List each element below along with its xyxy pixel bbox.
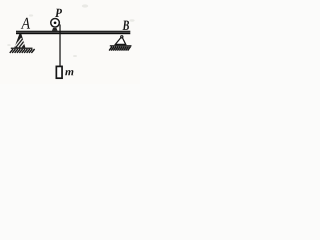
faint scan smudges <box>7 4 134 57</box>
label A <box>21 18 30 29</box>
pulley wheel <box>51 19 60 28</box>
pulley bracket <box>52 28 58 31</box>
right ground hatching <box>109 47 130 51</box>
beam gap shading <box>16 31 130 33</box>
background <box>0 0 140 84</box>
label m <box>65 70 73 75</box>
beam top line <box>16 31 130 32</box>
beam bottom line <box>16 33 130 35</box>
rope <box>59 25 60 67</box>
right ground line <box>110 45 132 46</box>
right support pin circle <box>121 36 123 38</box>
left support wedge hatch streaks <box>15 38 25 47</box>
left ground hatching <box>10 49 35 53</box>
right support base line <box>115 44 127 45</box>
label B <box>122 21 129 30</box>
pulley hub dot <box>54 21 57 24</box>
left ground line <box>11 48 33 49</box>
label P <box>55 9 62 17</box>
mass m block <box>56 66 62 78</box>
right support triangle outline <box>115 37 125 45</box>
left support wedge <box>14 33 25 47</box>
